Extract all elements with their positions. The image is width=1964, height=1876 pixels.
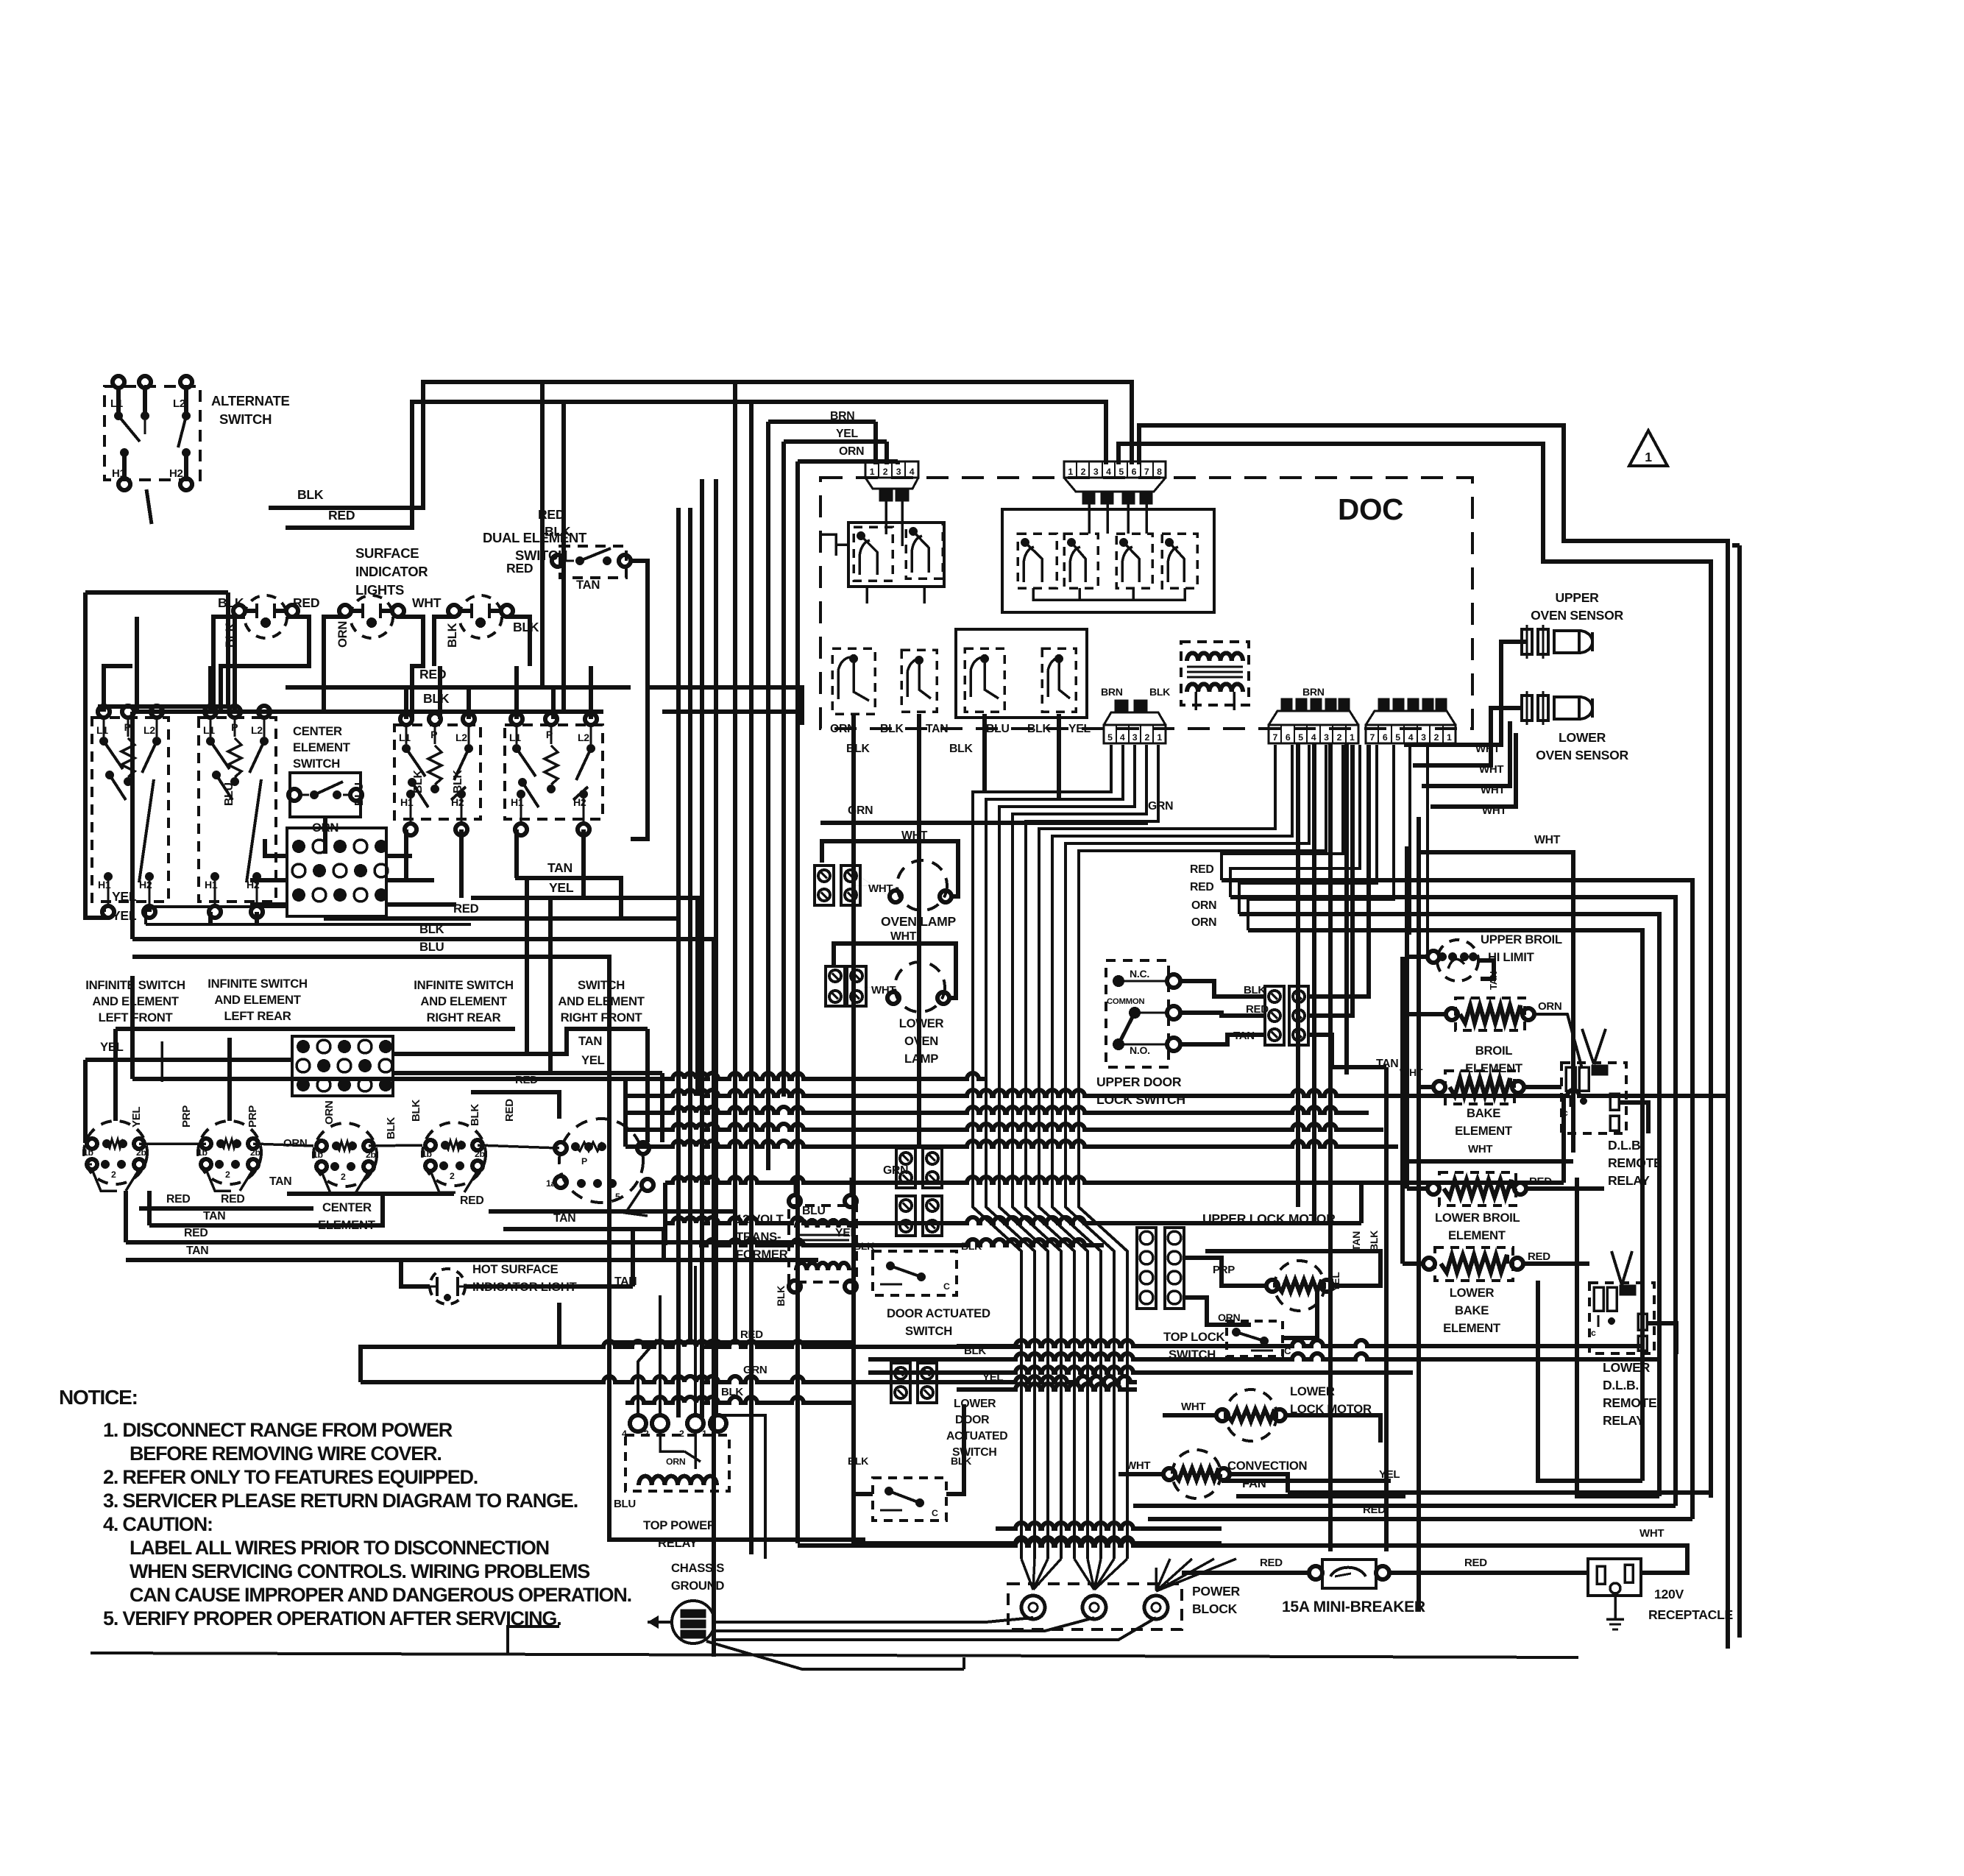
svg-text:6: 6: [1383, 732, 1388, 743]
central wire bundle verticals: [733, 382, 737, 1342]
DLB remote relay: [1561, 1063, 1626, 1133]
alternate switch leader arrow: [146, 489, 152, 524]
surface switch box 5 right front: [505, 725, 603, 819]
svg-text:BLK: BLK: [848, 1455, 869, 1467]
svg-text:RIGHT REAR: RIGHT REAR: [427, 1010, 501, 1024]
svg-text:1: 1: [1447, 732, 1452, 743]
surface switch box 1 left: [92, 718, 169, 902]
svg-text:L1: L1: [96, 724, 108, 736]
sensor wires: [1404, 642, 1527, 745]
svg-text:BLK: BLK: [949, 743, 973, 755]
alternate switch internals: [116, 388, 121, 412]
svg-text:BRN: BRN: [1101, 686, 1123, 698]
svg-text:TAN: TAN: [1350, 1231, 1362, 1251]
surface switch box 2: [199, 718, 276, 902]
svg-text:TAN: TAN: [578, 1034, 602, 1048]
svg-text:ORN: ORN: [283, 1137, 307, 1150]
lower broil element: [1439, 1172, 1516, 1206]
svg-text:RED: RED: [221, 1193, 244, 1206]
svg-text:CENTER: CENTER: [293, 724, 342, 738]
svg-text:YEL: YEL: [581, 1053, 605, 1067]
svg-text:DUAL ELEMENT: DUAL ELEMENT: [483, 530, 587, 545]
svg-text:3: 3: [896, 467, 901, 477]
lower broil wires: [1407, 1186, 1428, 1191]
svg-text:LOWER: LOWER: [1290, 1384, 1335, 1398]
svg-text:L1: L1: [203, 724, 215, 736]
connector 7-pin B: [1366, 725, 1456, 743]
svg-text:LOWER BROIL: LOWER BROIL: [1435, 1211, 1520, 1225]
wires under indicator lights: [213, 617, 245, 712]
svg-text:4: 4: [910, 467, 915, 477]
svg-text:ACTUATED: ACTUATED: [946, 1430, 1007, 1443]
upper door lock switch box: [1106, 960, 1169, 1067]
upper broil hi limit circle: [1437, 940, 1478, 981]
center element switch wires: [323, 817, 327, 854]
left tail wires: [361, 1347, 559, 1382]
svg-text:SWITCH: SWITCH: [578, 978, 625, 992]
connector 5-pin: [1104, 725, 1166, 743]
svg-text:AND ELEMENT: AND ELEMENT: [420, 994, 507, 1008]
svg-text:RED: RED: [1190, 881, 1213, 893]
svg-text:N.C.: N.C.: [1130, 968, 1149, 980]
svg-text:WHT: WHT: [1534, 834, 1561, 846]
svg-text:3: 3: [1093, 467, 1099, 477]
infinite switch interconnect wires: [85, 1164, 92, 1166]
svg-text:WHT: WHT: [1468, 1143, 1492, 1155]
svg-text:RED: RED: [1528, 1250, 1550, 1263]
svg-text:BLK: BLK: [218, 595, 244, 610]
wire loop inner to right side: [1119, 444, 1711, 1498]
indicator light 1: [244, 595, 287, 638]
svg-text:RED: RED: [506, 561, 533, 576]
connector 4-pin: [865, 461, 918, 478]
svg-text:AND ELEMENT: AND ELEMENT: [558, 994, 645, 1008]
right tall verticals inner: [1384, 1067, 1389, 1551]
connector 4-pin trapezoid: [865, 478, 918, 489]
svg-text:4: 4: [1106, 467, 1111, 477]
svg-text:H2: H2: [169, 467, 183, 480]
svg-text:BAKE: BAKE: [1467, 1106, 1500, 1120]
svg-text:OVEN SENSOR: OVEN SENSOR: [1531, 608, 1623, 623]
svg-text:LAMP: LAMP: [904, 1052, 938, 1066]
warning triangle note 1: [1629, 431, 1667, 466]
12v transformer wires: [793, 1178, 796, 1195]
mid bundle row 1: [132, 1073, 986, 1079]
svg-text:LIGHTS: LIGHTS: [355, 582, 404, 598]
svg-text:LOWER: LOWER: [1559, 730, 1606, 745]
chassis ground wires: [716, 1618, 1033, 1622]
svg-text:2b: 2b: [136, 1147, 146, 1158]
svg-text:RELAY: RELAY: [658, 1536, 698, 1550]
svg-text:WHT: WHT: [1126, 1459, 1150, 1472]
dual element switch wires: [564, 560, 574, 562]
surface switch riser wires: [104, 666, 132, 712]
svg-text:OVEN: OVEN: [904, 1034, 938, 1048]
svg-text:P: P: [546, 729, 553, 740]
svg-text:BLK: BLK: [469, 1104, 481, 1126]
infinite switch center element: [313, 1123, 377, 1186]
svg-text:WHT: WHT: [1475, 743, 1500, 755]
svg-text:BRN: BRN: [1302, 686, 1325, 698]
svg-text:YEL: YEL: [130, 1107, 143, 1128]
svg-text:BLK: BLK: [545, 524, 571, 539]
svg-text:L2: L2: [251, 724, 263, 736]
svg-text:2b: 2b: [366, 1150, 376, 1160]
svg-text:2: 2: [1081, 467, 1086, 477]
svg-text:4: 4: [1311, 732, 1316, 743]
svg-text:OVEN SENSOR: OVEN SENSOR: [1536, 748, 1628, 762]
svg-text:5: 5: [1395, 732, 1400, 743]
svg-text:15A MINI-BREAKER: 15A MINI-BREAKER: [1282, 1599, 1425, 1615]
svg-text:WHT: WHT: [890, 930, 917, 943]
svg-text:L2: L2: [143, 724, 155, 736]
svg-text:6: 6: [1286, 732, 1291, 743]
svg-text:120V: 120V: [1654, 1587, 1684, 1601]
svg-text:LEFT REAR: LEFT REAR: [224, 1009, 291, 1023]
svg-text:SWITCH: SWITCH: [293, 757, 340, 771]
svg-text:AND ELEMENT: AND ELEMENT: [92, 994, 179, 1008]
svg-text:1: 1: [1350, 732, 1355, 743]
DOC door switch 2: [901, 650, 937, 712]
DOC dashed boundary: [820, 478, 1472, 729]
connector 8-pin trapezoid: [1064, 478, 1166, 492]
svg-text:WHEN SERVICING CONTROLS. WIRIN: WHEN SERVICING CONTROLS. WIRING PROBLEMS: [130, 1560, 589, 1582]
svg-text:2b: 2b: [250, 1147, 260, 1158]
svg-text:D.L.B.: D.L.B.: [1608, 1138, 1644, 1153]
svg-text:RED: RED: [328, 508, 355, 523]
infinite switch left rear: [198, 1121, 261, 1184]
surface to infinite connectors: [525, 878, 529, 1054]
svg-text:ALTERNATE: ALTERNATE: [211, 393, 290, 408]
top lock switch wires: [1283, 1286, 1317, 1338]
svg-text:BLK: BLK: [297, 487, 324, 502]
svg-text:RED: RED: [460, 1194, 483, 1207]
svg-text:BLK: BLK: [385, 1117, 397, 1139]
svg-text:WHT: WHT: [871, 984, 896, 997]
broil element wires: [1407, 1012, 1446, 1016]
bundle staircase to 4-pin connector: [768, 420, 876, 424]
svg-text:BLU: BLU: [223, 782, 235, 806]
svg-text:RIGHT FRONT: RIGHT FRONT: [561, 1010, 643, 1024]
svg-text:BLK: BLK: [951, 1455, 972, 1467]
svg-text:SURFACE: SURFACE: [355, 545, 419, 561]
svg-text:c: c: [1591, 1328, 1596, 1338]
junction block surface: [287, 828, 386, 916]
upper door lock terminal strips: [1265, 986, 1284, 1045]
svg-text:5: 5: [1119, 467, 1124, 477]
wire left edge vertical: [85, 592, 108, 918]
svg-text:WHT: WHT: [1479, 763, 1503, 776]
svg-text:LOWER: LOWER: [899, 1016, 944, 1030]
relay large contacts: [1018, 534, 1057, 588]
DOC door switch 1: [832, 648, 875, 714]
relay box small: [848, 523, 944, 587]
svg-text:ELEMENT: ELEMENT: [1448, 1228, 1506, 1242]
svg-text:BLK: BLK: [513, 620, 539, 634]
svg-text:ORN: ORN: [1538, 1000, 1561, 1013]
svg-text:7: 7: [1144, 467, 1149, 477]
wire to box1: [100, 592, 228, 712]
chassis ground arrow: [648, 1621, 672, 1624]
svg-text:RED: RED: [1260, 1557, 1283, 1569]
svg-text:2b: 2b: [475, 1149, 485, 1159]
svg-text:2: 2: [111, 1169, 116, 1180]
svg-text:BLK: BLK: [445, 623, 459, 648]
oven lamp circle: [897, 860, 947, 910]
bottom border line: [91, 1653, 1578, 1657]
convection fan circle: [1172, 1450, 1221, 1498]
svg-text:RED: RED: [1190, 863, 1213, 876]
svg-text:3: 3: [1421, 732, 1426, 743]
svg-text:TAN: TAN: [576, 578, 600, 592]
svg-text:LOWER: LOWER: [1603, 1360, 1651, 1375]
svg-text:RELAY: RELAY: [1603, 1413, 1645, 1428]
svg-text:TAN: TAN: [553, 1212, 575, 1225]
svg-text:GRN: GRN: [1148, 800, 1173, 813]
svg-text:ELEMENT: ELEMENT: [1465, 1061, 1523, 1075]
svg-text:YEL: YEL: [549, 880, 574, 895]
lower door actuated wires: [854, 1404, 873, 1494]
indicator light 3: [459, 595, 502, 638]
svg-text:1b: 1b: [197, 1147, 208, 1158]
svg-text:HOT SURFACE: HOT SURFACE: [472, 1262, 558, 1276]
svg-text:BLU: BLU: [353, 782, 366, 806]
svg-text:YEL: YEL: [835, 1227, 857, 1239]
svg-text:BAKE: BAKE: [1455, 1303, 1489, 1317]
loop verticals to rails: [540, 382, 545, 687]
svg-text:DOOR ACTUATED: DOOR ACTUATED: [887, 1306, 990, 1320]
svg-text:P: P: [581, 1156, 587, 1167]
junction block infinite: [292, 1036, 393, 1096]
svg-text:RED: RED: [503, 1099, 516, 1122]
svg-text:4: 4: [1408, 732, 1414, 743]
svg-text:REMOTE: REMOTE: [1603, 1395, 1657, 1410]
surface switch box 4 right rear: [394, 725, 481, 819]
switch right front large: [559, 1119, 643, 1203]
power block terminals: [1021, 1596, 1045, 1619]
svg-text:5: 5: [1107, 732, 1113, 743]
mid bundle rows left stack: [625, 1107, 1369, 1113]
svg-text:2: 2: [1337, 732, 1342, 743]
svg-text:ELEMENT: ELEMENT: [293, 740, 351, 754]
center element switch box: [290, 773, 361, 817]
svg-text:BLK: BLK: [412, 770, 425, 793]
svg-text:3: 3: [1132, 732, 1138, 743]
DOC door switch box 34: [956, 629, 1087, 718]
svg-text:1: 1: [1645, 450, 1652, 464]
hot surface indicator light: [430, 1269, 465, 1304]
svg-text:RED: RED: [453, 902, 479, 916]
power block bottom wires: [508, 1627, 559, 1653]
svg-text:TAN: TAN: [547, 860, 572, 875]
svg-text:BEFORE REMOVING WIRE COVER.: BEFORE REMOVING WIRE COVER.: [130, 1443, 442, 1465]
power bundle horizontals: [957, 1340, 1642, 1346]
svg-text:P: P: [124, 721, 131, 733]
lower oven sensor symbol: [1522, 695, 1532, 721]
svg-text:RED: RED: [166, 1193, 190, 1206]
lower oven lamp strips: [826, 966, 845, 1006]
convection fan wires: [1119, 1472, 1163, 1476]
svg-text:L2: L2: [578, 732, 589, 743]
svg-text:H1: H1: [112, 467, 126, 480]
relay transformer dashed box: [1181, 642, 1249, 705]
svg-text:UPPER: UPPER: [1555, 590, 1599, 605]
svg-text:ORN: ORN: [1191, 916, 1216, 929]
lower door actuated switch box: [873, 1478, 946, 1521]
svg-text:2: 2: [341, 1172, 346, 1182]
svg-text:RED: RED: [293, 595, 319, 610]
svg-text:L2: L2: [173, 397, 185, 410]
svg-text:ORN: ORN: [839, 445, 864, 458]
svg-text:L1: L1: [110, 397, 123, 410]
svg-text:BLOCK: BLOCK: [1192, 1601, 1238, 1616]
svg-text:RED: RED: [515, 1074, 538, 1086]
svg-text:RED: RED: [1529, 1175, 1552, 1188]
svg-text:5: 5: [1298, 732, 1303, 743]
alternate switch terminals: [113, 376, 124, 388]
svg-text:RECEPTACLE: RECEPTACLE: [1648, 1607, 1734, 1622]
lower DLB remote relay: [1589, 1283, 1654, 1353]
svg-text:BLK: BLK: [410, 1100, 422, 1122]
svg-text:TAN: TAN: [203, 1210, 225, 1222]
svg-text:ORN: ORN: [323, 1101, 336, 1125]
svg-text:INFINITE SWITCH: INFINITE SWITCH: [414, 978, 513, 992]
svg-text:BLK: BLK: [1027, 723, 1051, 735]
relay box large internal wires: [1033, 588, 1185, 600]
svg-text:RED: RED: [1363, 1504, 1386, 1516]
svg-text:3: 3: [1324, 732, 1329, 743]
svg-text:PRP: PRP: [180, 1105, 193, 1128]
svg-text:TAN: TAN: [1488, 971, 1499, 990]
svg-text:BROIL: BROIL: [1475, 1044, 1513, 1058]
svg-text:2: 2: [1434, 732, 1439, 743]
svg-text:C: C: [943, 1281, 950, 1292]
svg-text:UPPER BROIL: UPPER BROIL: [1481, 932, 1562, 946]
svg-text:c: c: [1563, 1108, 1568, 1118]
svg-text:TAN: TAN: [186, 1245, 208, 1257]
lower lock motor wires: [1163, 1413, 1216, 1417]
svg-text:LOWER: LOWER: [954, 1398, 996, 1410]
svg-text:6: 6: [1132, 467, 1137, 477]
svg-text:BLU: BLU: [419, 940, 444, 954]
svg-text:WHT: WHT: [412, 595, 442, 610]
svg-text:BLU: BLU: [986, 723, 1010, 735]
svg-text:RELAY: RELAY: [1608, 1173, 1650, 1188]
svg-text:2. REFER ONLY TO FEATURES EQUI: 2. REFER ONLY TO FEATURES EQUIPPED.: [103, 1466, 478, 1488]
svg-text:COMMON: COMMON: [1107, 997, 1144, 1006]
svg-text:BLK: BLK: [423, 691, 450, 706]
svg-text:POWER: POWER: [1192, 1584, 1241, 1599]
fan wires from DOC connectors down-left: [1222, 745, 1343, 880]
oven lamp terminal strips: [815, 866, 834, 905]
svg-text:4. CAUTION:: 4. CAUTION:: [103, 1513, 213, 1535]
120V receptacle box: [1588, 1559, 1641, 1596]
svg-text:DOC: DOC: [1338, 492, 1403, 526]
bottom connector verticals surface area: [386, 854, 412, 858]
svg-text:BLK: BLK: [854, 1240, 875, 1252]
connector 7-pin A: [1269, 725, 1358, 743]
svg-text:YEL: YEL: [836, 428, 858, 440]
svg-text:4: 4: [1120, 732, 1125, 743]
svg-text:CAN CAUSE IMPROPER AND DANGERO: CAN CAUSE IMPROPER AND DANGEROUS OPERATI…: [130, 1584, 631, 1606]
120V receptacle ground: [1614, 1593, 1617, 1619]
svg-text:BLK: BLK: [452, 770, 464, 793]
svg-text:BLK: BLK: [880, 723, 904, 735]
svg-text:BLK: BLK: [1149, 686, 1171, 698]
top power relay enclosure wire: [609, 1340, 854, 1345]
bake element: [1445, 1071, 1514, 1104]
DOC door switch 4: [1042, 648, 1076, 712]
svg-text:ELEMENT: ELEMENT: [1443, 1321, 1501, 1335]
svg-text:LOWER: LOWER: [1450, 1286, 1495, 1300]
svg-text:1: 1: [1157, 732, 1162, 743]
receptacle right vertical: [1726, 1546, 1730, 1649]
svg-text:P: P: [430, 729, 437, 740]
connector downfan verticals: [973, 745, 1111, 1559]
15A mini breaker: [1322, 1560, 1376, 1588]
svg-text:LABEL ALL WIRES PRIOR TO DISCO: LABEL ALL WIRES PRIOR TO DISCONNECTION: [130, 1537, 549, 1559]
svg-text:L2: L2: [455, 732, 467, 743]
svg-text:SWITCH: SWITCH: [905, 1324, 952, 1338]
broil element: [1456, 998, 1525, 1030]
alternate switch dashed box: [104, 386, 200, 480]
svg-text:BLK: BLK: [775, 1285, 787, 1306]
svg-text:1: 1: [1068, 467, 1073, 477]
lower bake wires: [1403, 1261, 1423, 1266]
svg-text:1b: 1b: [83, 1147, 93, 1158]
svg-text:OVEN LAMP: OVEN LAMP: [881, 914, 956, 929]
infinite switch right rear: [422, 1122, 486, 1186]
lower DLB relay wires: [1612, 1251, 1622, 1285]
svg-text:LEFT FRONT: LEFT FRONT: [99, 1010, 174, 1024]
transformer leads: [1194, 692, 1197, 710]
svg-text:TOP POWER: TOP POWER: [643, 1518, 716, 1532]
power block converging wires: [1021, 1559, 1033, 1590]
svg-text:2: 2: [883, 467, 888, 477]
svg-text:GROUND: GROUND: [671, 1579, 725, 1593]
top power relay terminals: [630, 1415, 646, 1431]
svg-text:BRN: BRN: [830, 410, 854, 422]
wire loop upper outer to right side: [1139, 425, 1728, 1649]
DLB relay wires: [1582, 1029, 1594, 1064]
svg-text:INDICATOR: INDICATOR: [355, 564, 428, 579]
door actuated switch box: [873, 1251, 957, 1295]
vertical pair down from connector A: [1296, 743, 1300, 1207]
svg-text:TAN: TAN: [926, 723, 948, 735]
svg-text:1. DISCONNECT RANGE FROM POWER: 1. DISCONNECT RANGE FROM POWER: [103, 1419, 453, 1441]
svg-text:WHT: WHT: [868, 882, 893, 895]
svg-text:N.O.: N.O.: [1130, 1044, 1150, 1056]
lower lock motor circle: [1225, 1390, 1277, 1441]
svg-text:CHASSIS: CHASSIS: [671, 1561, 724, 1575]
svg-text:5. VERIFY PROPER OPERATION AFT: 5. VERIFY PROPER OPERATION AFTER SERVICI…: [103, 1607, 561, 1629]
chassis ground symbol: [672, 1601, 715, 1643]
svg-text:3. SERVICER PLEASE RETURN DIAG: 3. SERVICER PLEASE RETURN DIAGRAM TO RAN…: [103, 1490, 578, 1512]
top lock switch box: [1227, 1321, 1283, 1356]
svg-text:ORN: ORN: [336, 621, 350, 648]
svg-text:REMOTE: REMOTE: [1608, 1155, 1662, 1170]
svg-text:LOCK SWITCH: LOCK SWITCH: [1096, 1092, 1185, 1107]
svg-text:D.L.B.: D.L.B.: [1603, 1378, 1639, 1392]
upper broil hi limit wires: [1407, 957, 1428, 995]
svg-text:UPPER LOCK MOTOR: UPPER LOCK MOTOR: [1202, 1211, 1336, 1226]
lower oven lamp circle: [895, 962, 945, 1012]
connector 8-pin: [1064, 461, 1166, 478]
svg-text:BLU: BLU: [614, 1498, 636, 1510]
relay small contacts: [854, 527, 893, 581]
svg-text:TOP LOCK: TOP LOCK: [1163, 1330, 1224, 1344]
svg-text:1a: 1a: [546, 1178, 556, 1189]
